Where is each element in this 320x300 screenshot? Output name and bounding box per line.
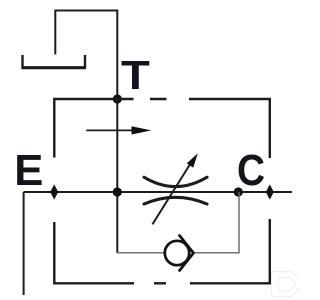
wire tank to node T — [55, 11, 117, 100]
wire E external drop line — [23, 192, 25, 295]
node junction main vertical / port line — [113, 187, 122, 196]
bypass wire right and up (gray) — [195, 192, 240, 253]
flow control valve throttle arcs — [144, 177, 207, 204]
label E — [14, 150, 43, 194]
flow control valve adjustment arrow — [152, 153, 197, 224]
wire vertical main line T down to bypass corner — [116, 99, 118, 253]
port E diamond — [50, 184, 58, 199]
port C diamond — [266, 184, 274, 199]
node T junction dot — [113, 94, 122, 103]
node junction bypass / port line — [234, 187, 243, 196]
tank symbol top left — [21, 55, 86, 68]
check valve seat — [180, 236, 194, 271]
wire port line E to C — [24, 191, 292, 193]
check valve circle — [165, 241, 189, 265]
label C — [237, 150, 265, 194]
enclosure dashed box — [54, 99, 269, 283]
flow direction arrow — [86, 126, 151, 134]
bypass wire left (gray) — [117, 252, 164, 254]
label T — [121, 55, 150, 96]
watermark D bottom right — [272, 272, 301, 297]
